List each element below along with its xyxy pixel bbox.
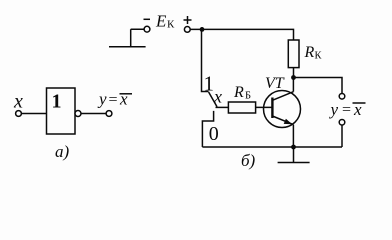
- wire pole to RB: [216, 106, 229, 108]
- wire: [22, 113, 47, 115]
- label VT: [265, 75, 285, 92]
- inversion bubble: [75, 111, 81, 117]
- svg-text:VT: VT: [265, 75, 285, 92]
- label EK: [155, 12, 175, 31]
- svg-text:а): а): [55, 142, 70, 161]
- wire: [81, 113, 106, 115]
- svg-text:y: y: [97, 90, 107, 109]
- label x (switch pole): [213, 87, 222, 107]
- svg-text:1: 1: [204, 72, 215, 96]
- label y = x-bar (output): [329, 100, 363, 119]
- junction dot: [200, 27, 205, 32]
- label b): [241, 151, 256, 170]
- svg-text:Б: Б: [245, 91, 251, 102]
- svg-text:R: R: [304, 44, 315, 61]
- svg-text:=: =: [109, 91, 118, 108]
- transistor VT: [264, 91, 301, 128]
- svg-text:=: =: [342, 101, 351, 118]
- overbar of x (left): [120, 93, 133, 95]
- wire bottom rail: [202, 146, 342, 148]
- junction dot collector: [291, 75, 296, 80]
- svg-text:y: y: [329, 100, 339, 119]
- terminal +: [184, 27, 190, 33]
- svg-text:К: К: [315, 51, 323, 62]
- wire left branch to switch contact 1: [202, 29, 209, 91]
- svg-text:x: x: [13, 91, 23, 113]
- label 0 (switch position): [209, 123, 219, 145]
- wire collector: [292, 78, 294, 92]
- svg-text:1: 1: [52, 91, 62, 113]
- svg-text:x: x: [119, 90, 128, 109]
- label RB: [233, 84, 251, 102]
- junction dot emitter-ground: [291, 145, 296, 150]
- wire lower terminal to rail: [341, 125, 343, 147]
- label plus: [184, 16, 192, 24]
- label a): [55, 142, 70, 161]
- overbar of x (right): [353, 102, 366, 104]
- wire emitter: [292, 125, 294, 147]
- switch lever SA: [209, 92, 217, 107]
- svg-text:0: 0: [209, 123, 219, 145]
- switch contact 0 wire: [202, 111, 213, 147]
- label x: [13, 91, 23, 113]
- voltage source -EK step symbol: [109, 29, 146, 47]
- svg-text:б): б): [241, 151, 256, 170]
- wire top rail: [190, 29, 293, 40]
- ground: [278, 147, 310, 163]
- resistor RK: [288, 40, 299, 68]
- terminal -EK: [144, 26, 150, 32]
- wire RK bottom: [293, 68, 295, 78]
- node x input terminal: [16, 111, 22, 117]
- label minus: [144, 18, 151, 20]
- label y = x-bar: [97, 90, 128, 109]
- svg-text:x: x: [213, 87, 222, 107]
- label RK: [304, 44, 323, 62]
- node y output terminal: [106, 111, 112, 117]
- terminal y lower: [339, 120, 345, 126]
- label 1 (gate function): [52, 91, 62, 113]
- svg-text:К: К: [167, 19, 175, 31]
- logic gate DD1 inverter box: [47, 88, 76, 134]
- svg-text:R: R: [233, 84, 244, 101]
- wire base lead: [256, 106, 273, 108]
- wire collector to output: [294, 78, 343, 94]
- svg-text:E: E: [155, 12, 167, 31]
- terminal y upper: [339, 94, 345, 100]
- label 1 (switch position): [204, 72, 215, 96]
- resistor RB: [228, 102, 255, 113]
